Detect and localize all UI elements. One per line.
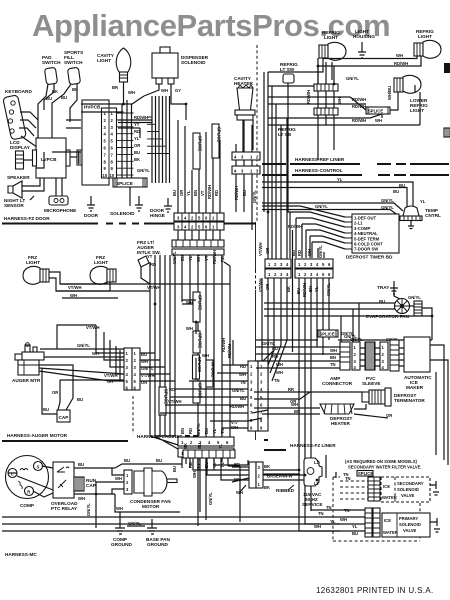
wire amp connector runs — [256, 303, 399, 368]
cavity light — [97, 48, 131, 104]
svg-text:TN: TN — [330, 362, 336, 367]
svg-text:LIGHT: LIGHT — [97, 58, 111, 63]
primary valve connectors — [2, 508, 380, 537]
splice S1 — [113, 168, 150, 206]
connector amp — [322, 342, 360, 386]
svg-text:CAP: CAP — [86, 483, 96, 488]
svg-text:RD/WH: RD/WH — [134, 115, 148, 120]
pad switch SW1 — [42, 55, 61, 85]
svg-text:VALVE: VALVE — [401, 493, 415, 498]
svg-text:BU: BU — [352, 531, 358, 536]
run cap — [74, 477, 97, 491]
refrig light upper A — [319, 30, 346, 60]
harness-ref liner divider — [262, 157, 449, 164]
svg-text:TN: TN — [318, 511, 324, 516]
svg-text:RD/WH: RD/WH — [352, 118, 366, 123]
svg-text:WH/BU: WH/BU — [387, 86, 392, 100]
svg-text:HVPCB: HVPCB — [84, 105, 101, 110]
svg-text:GN/YL: GN/YL — [381, 205, 394, 210]
svg-text:HARNESS-FZ DOOR: HARNESS-FZ DOOR — [4, 216, 50, 221]
svg-text:BU: BU — [43, 407, 49, 412]
svg-text:TRAY: TRAY — [377, 285, 390, 290]
svg-text:RD: RD — [134, 129, 140, 134]
evaporator fan — [366, 288, 422, 319]
svg-text:SPLICE: SPLICE — [197, 333, 202, 348]
svg-text:SLEEVE: SLEEVE — [362, 381, 381, 386]
svg-text:WH: WH — [276, 370, 283, 375]
svg-text:WH: WH — [396, 53, 403, 58]
svg-text:BASEPAN-W: BASEPAN-W — [267, 474, 293, 479]
svg-text:LIGHT: LIGHT — [418, 34, 432, 39]
capacitor CAP — [57, 410, 70, 422]
ground solenoid — [110, 196, 143, 216]
wire keyboard to LVPCB — [19, 112, 44, 152]
svg-text:SPLICE: SPLICE — [116, 181, 133, 186]
wire comp to relay — [8, 466, 53, 497]
svg-text:WH: WH — [314, 524, 321, 529]
svg-text:WH: WH — [70, 293, 77, 298]
splice S2 vertical — [193, 133, 202, 169]
auger motor — [12, 325, 124, 383]
wire pad switch leads — [38, 84, 58, 152]
svg-text:S: S — [37, 465, 40, 470]
svg-text:DISPLAY: DISPLAY — [10, 145, 31, 150]
night light sensor label — [4, 196, 34, 208]
svg-text:MICROPHONE: MICROPHONE — [44, 208, 76, 213]
wire color labels door hinge — [172, 185, 219, 199]
svg-text:7-DOOR SW: 7-DOOR SW — [354, 247, 378, 252]
wire evap fan runs — [256, 303, 432, 340]
svg-text:MAKER: MAKER — [406, 385, 424, 390]
svg-text:GN/YL: GN/YL — [252, 190, 257, 203]
svg-text:BU: BU — [61, 95, 67, 100]
svg-text:WH: WH — [115, 476, 122, 481]
svg-text:GN/YL: GN/YL — [315, 204, 328, 209]
svg-text:VT/WH: VT/WH — [68, 285, 82, 290]
ground base pan — [127, 519, 170, 547]
svg-text:RD/WH: RD/WH — [221, 338, 226, 352]
svg-text:WH: WH — [307, 249, 312, 256]
svg-text:WATER: WATER — [382, 495, 397, 500]
svg-text:SWITCH: SWITCH — [42, 60, 61, 65]
svg-text:BN: BN — [330, 355, 336, 360]
svg-text:SPLICE: SPLICE — [197, 383, 202, 398]
ground door — [84, 196, 99, 218]
svg-text:R: R — [27, 490, 30, 495]
wire bundle to door hinge — [178, 120, 220, 213]
svg-text:BU: BU — [46, 96, 52, 101]
wire center drop bundle — [150, 230, 230, 437]
splice S6e vertical — [159, 387, 182, 415]
svg-text:WH: WH — [78, 496, 85, 501]
splice S6b vertical — [193, 355, 202, 379]
svg-text:SECONDARY WATER FILTER VALVE: SECONDARY WATER FILTER VALVE — [348, 465, 421, 470]
svg-text:YL: YL — [218, 443, 223, 449]
wire relay outputs — [74, 462, 115, 501]
wire bundle into bottom connector — [150, 436, 222, 526]
power board HVPCB — [82, 100, 117, 185]
wire horizontal runs door — [36, 120, 152, 168]
svg-text:BU: BU — [77, 397, 83, 402]
svg-text:YL: YL — [352, 524, 358, 529]
svg-text:CONNECTOR: CONNECTOR — [322, 381, 353, 386]
connector stub right edge — [444, 63, 450, 137]
svg-text:GN/YL: GN/YL — [77, 343, 90, 348]
connector fz liner 9pin — [248, 361, 268, 431]
wire right bus to valves — [430, 345, 448, 465]
wire stubs labels to bus — [147, 117, 170, 154]
svg-text:12632801 PRINTED IN U.S.A.: 12632801 PRINTED IN U.S.A. — [316, 586, 434, 595]
svg-text:HARNESS-AUGER MOTOR: HARNESS-AUGER MOTOR — [7, 433, 68, 438]
svg-text:YL: YL — [212, 428, 217, 434]
svg-text:WATER: WATER — [383, 530, 398, 535]
splice S5 vertical — [186, 292, 202, 322]
service plug — [276, 458, 323, 507]
primary solenoid valve — [382, 513, 440, 537]
svg-text:WH: WH — [337, 97, 342, 104]
wire labels below control conn — [234, 120, 257, 230]
svg-text:BN: BN — [193, 190, 198, 196]
svg-text:C: C — [11, 472, 14, 477]
svg-text:COMP: COMP — [20, 503, 34, 508]
cavity heater — [234, 76, 255, 160]
svg-text:LIGHT: LIGHT — [94, 260, 108, 265]
svg-text:PRIMARY: PRIMARY — [399, 516, 418, 521]
svg-text:GN/YL: GN/YL — [86, 503, 91, 516]
svg-text:(AS REQUIRED ON SOME MODELS): (AS REQUIRED ON SOME MODELS) — [345, 459, 417, 464]
svg-text:GY: GY — [175, 88, 181, 93]
svg-text:OR: OR — [52, 390, 58, 395]
defrost heater — [254, 402, 392, 426]
svg-text:VT/WH: VT/WH — [86, 325, 100, 330]
plate number text — [316, 586, 434, 595]
svg-text:LIGHT: LIGHT — [410, 108, 424, 113]
harness auger motor divider — [2, 433, 128, 441]
svg-text:RR: RR — [288, 387, 294, 392]
svg-text:BU: BU — [134, 150, 140, 155]
svg-text:LT SB: LT SB — [278, 132, 292, 137]
harness fz liner divider — [264, 440, 336, 450]
op board LVPCB — [33, 138, 71, 178]
wire labels below cabinet connector — [188, 457, 225, 470]
svg-text:TN: TN — [274, 378, 280, 383]
svg-text:SOLENOID: SOLENOID — [399, 522, 421, 527]
sports fill switch SW2 — [64, 50, 83, 85]
svg-text:L2: L2 — [314, 481, 320, 486]
svg-text:GN/YL: GN/YL — [381, 198, 394, 203]
svg-text:WH: WH — [202, 353, 209, 358]
svg-text:WH: WH — [276, 362, 283, 367]
svg-text:RD/WH: RD/WH — [352, 97, 366, 102]
svg-text:WH: WH — [192, 471, 197, 478]
svg-text:SOLENOID: SOLENOID — [110, 211, 135, 216]
divider cabinet/fz-liner — [255, 222, 257, 440]
svg-text:RIBBED: RIBBED — [276, 488, 295, 493]
svg-text:GROUND: GROUND — [111, 542, 132, 547]
wire cavity drop bundle — [122, 100, 132, 178]
svg-text:BK: BK — [134, 157, 140, 162]
svg-text:RD: RD — [188, 428, 193, 434]
connector ref liner — [232, 152, 260, 160]
automatic ice maker — [375, 337, 432, 390]
wire drops below control connectors — [262, 230, 329, 511]
ground tray — [377, 281, 398, 294]
svg-text:SWITCH: SWITCH — [64, 60, 83, 65]
svg-text:YL: YL — [134, 136, 140, 141]
svg-text:BK: BK — [183, 443, 188, 449]
svg-text:VT: VT — [200, 190, 205, 196]
svg-text:YL: YL — [420, 199, 426, 204]
svg-text:GN/YL: GN/YL — [208, 492, 213, 505]
svg-text:VT/WH: VT/WH — [147, 285, 161, 290]
svg-text:GN/YL: GN/YL — [137, 168, 150, 173]
svg-text:SPLICE: SPLICE — [197, 357, 202, 372]
svg-text:GN/YL: GN/YL — [350, 337, 363, 342]
wire timer drop bundle — [290, 212, 324, 258]
svg-text:YL: YL — [186, 190, 191, 196]
divider dashed fz door / ref — [256, 45, 258, 222]
svg-text:RD: RD — [214, 190, 219, 196]
svg-text:GROUND: GROUND — [147, 542, 168, 547]
svg-text:GN/YL: GN/YL — [318, 245, 323, 258]
svg-text:WH: WH — [186, 326, 193, 331]
svg-text:HARNESS-MC: HARNESS-MC — [5, 552, 37, 557]
connector cabinet bottom rows — [178, 437, 234, 457]
svg-text:BU: BU — [156, 458, 162, 463]
svg-text:CAP: CAP — [59, 415, 69, 420]
svg-text:BK: BK — [264, 464, 270, 469]
svg-text:CNTRL: CNTRL — [425, 213, 441, 218]
svg-text:HARNESS-CONTROL: HARNESS-CONTROL — [295, 168, 343, 173]
svg-text:BN: BN — [180, 428, 185, 434]
svg-text:WH: WH — [236, 490, 243, 495]
connector control row 6pin — [258, 243, 333, 298]
wire harness bus vertical — [152, 96, 170, 183]
svg-text:TN: TN — [326, 505, 332, 510]
svg-text:SPLICE: SPLICE — [368, 109, 383, 114]
svg-text:BU: BU — [172, 466, 177, 472]
svg-text:OR: OR — [134, 143, 140, 148]
svg-text:ICE: ICE — [384, 518, 391, 523]
wire splice links — [182, 284, 230, 380]
connector mc top row — [183, 443, 235, 458]
svg-text:WH: WH — [116, 506, 123, 511]
wire refrig light feeds — [268, 53, 421, 84]
speaker — [7, 175, 44, 198]
svg-text:DEFROST TIMER BD: DEFROST TIMER BD — [346, 255, 393, 260]
svg-text:LIGHT: LIGHT — [324, 35, 338, 40]
wire labels above cabinet connector — [180, 423, 225, 436]
svg-text:WH: WH — [291, 402, 298, 407]
wire long bottom runs — [2, 511, 340, 531]
wire control loop top — [262, 177, 426, 216]
splice S6d vertical — [193, 338, 226, 403]
svg-text:YL: YL — [337, 177, 343, 182]
harness mc label — [5, 552, 37, 557]
secondary water filter valve note — [345, 459, 421, 470]
svg-text:BU: BU — [291, 250, 296, 256]
svg-text:WH: WH — [128, 90, 135, 95]
svg-text:GN/YL: GN/YL — [341, 331, 354, 336]
svg-text:BR: BR — [112, 85, 118, 90]
svg-text:RD: RD — [297, 250, 302, 256]
wire auger leads — [39, 351, 124, 414]
splice S4 — [366, 107, 390, 114]
svg-text:BU: BU — [393, 189, 399, 194]
svg-text:HARNESS-REF LINER: HARNESS-REF LINER — [295, 157, 345, 162]
svg-text:BU: BU — [172, 190, 177, 196]
svg-text:RD: RD — [272, 354, 278, 359]
ground comp — [111, 512, 132, 547]
svg-text:HEATER: HEATER — [331, 421, 351, 426]
svg-text:OR: OR — [386, 413, 392, 418]
wire HVPCB pin stubs — [117, 113, 134, 175]
svg-text:KEYBOARD: KEYBOARD — [5, 89, 32, 94]
svg-text:VT/WH: VT/WH — [258, 243, 263, 257]
frz light 2 — [90, 255, 116, 284]
ground door hinge — [150, 198, 172, 218]
svg-text:BK: BK — [52, 89, 58, 94]
wire lower light runs — [268, 76, 420, 125]
secondary valve connector — [340, 476, 380, 501]
svg-text:RD/WH: RD/WH — [207, 185, 212, 199]
connector control pair small — [265, 259, 291, 278]
svg-text:WH: WH — [375, 118, 382, 123]
svg-text:PTC RELAY: PTC RELAY — [51, 506, 78, 511]
dispenser solenoid — [128, 47, 209, 96]
svg-text:SOLENOID: SOLENOID — [181, 60, 206, 65]
keyboard connector — [3, 89, 33, 140]
wire dispenser runs — [81, 96, 186, 120]
svg-text:WH: WH — [161, 88, 168, 93]
connector door hinge block — [174, 213, 224, 230]
lower refrig light — [387, 75, 428, 113]
svg-text:HARNESS-FZ LINER: HARNESS-FZ LINER — [290, 443, 336, 448]
wire gnyl drop left — [86, 482, 108, 528]
svg-text:GN/YL: GN/YL — [346, 76, 359, 81]
svg-text:RD: RD — [234, 462, 240, 467]
dashed optional route — [333, 477, 420, 541]
wire color labels HVPCB — [134, 115, 148, 162]
temp control — [400, 206, 441, 229]
svg-text:BN: BN — [294, 409, 300, 414]
splice S3 vertical — [212, 124, 221, 158]
svg-text:YL: YL — [330, 519, 336, 524]
svg-text:BK: BK — [264, 485, 270, 490]
svg-text:HOUSING: HOUSING — [353, 34, 375, 39]
svg-text:DOOR: DOOR — [84, 213, 99, 218]
svg-text:BU: BU — [204, 428, 209, 434]
watermark AppliancePartsPros.com — [32, 8, 390, 43]
svg-text:GN/YL: GN/YL — [262, 341, 275, 346]
svg-text:SPLICE: SPLICE — [197, 136, 202, 151]
svg-text:GN/YL: GN/YL — [408, 295, 421, 300]
svg-text:SPLICE: SPLICE — [210, 362, 215, 377]
svg-text:AUGER MTR: AUGER MTR — [12, 378, 41, 383]
splice S7 — [318, 330, 354, 337]
svg-text:LIGHT: LIGHT — [26, 260, 40, 265]
wire left bundle ref section — [264, 72, 287, 259]
wire refrig vertical bundle — [318, 58, 334, 160]
svg-text:RD/WH: RD/WH — [227, 344, 232, 358]
svg-text:SENSOR: SENSOR — [4, 203, 24, 208]
svg-text:MOTOR: MOTOR — [142, 504, 160, 509]
harness-fz door divider — [2, 216, 256, 224]
wire mc drops — [172, 458, 317, 522]
svg-text:HINGE: HINGE — [150, 213, 165, 218]
connector auger col — [124, 348, 155, 391]
svg-text:BU: BU — [399, 183, 405, 188]
secondary solenoid valve — [381, 477, 439, 502]
light housing ground — [353, 29, 375, 58]
LCD display — [10, 140, 36, 169]
splice S8 — [343, 471, 373, 478]
svg-text:LT SW: LT SW — [280, 67, 295, 72]
splice S6c vertical — [206, 360, 215, 387]
overload ptc relay — [51, 462, 78, 511]
svg-text:AUTOMATIC: AUTOMATIC — [404, 375, 432, 380]
svg-text:OR: OR — [179, 190, 184, 196]
wire auger conn runs — [39, 325, 175, 381]
wire sports switch leads — [52, 84, 78, 152]
wire LVPCB right to HVPCB connector — [70, 150, 82, 165]
svg-text:ICE: ICE — [383, 484, 390, 489]
svg-text:BU: BU — [124, 458, 130, 463]
wire labels 9pin left — [227, 344, 246, 430]
svg-text:WH: WH — [340, 517, 347, 522]
svg-text:OR: OR — [265, 248, 270, 254]
svg-text:L1: L1 — [314, 460, 320, 465]
svg-text:10: 10 — [110, 173, 115, 178]
svg-text:10: 10 — [103, 173, 108, 178]
svg-text:VALVE: VALVE — [403, 528, 417, 533]
refrig lt sw — [280, 62, 298, 212]
harness-control divider — [262, 168, 449, 175]
wire runs into 9pin — [160, 340, 287, 428]
svg-text:YT: YT — [147, 254, 153, 259]
svg-text:BU: BU — [197, 443, 202, 449]
compressor COMP — [6, 456, 49, 509]
svg-text:SECONDARY: SECONDARY — [397, 481, 424, 486]
wire feeds to valves — [299, 455, 340, 531]
connector refrig lt sb col — [278, 84, 342, 137]
svg-text:SPLICE: SPLICE — [358, 471, 373, 476]
condenser fan motor — [108, 458, 182, 512]
svg-text:BU: BU — [78, 462, 84, 467]
pvc sleeve — [360, 342, 381, 386]
svg-text:SPLICE: SPLICE — [320, 332, 335, 337]
harness cabinet divider — [133, 396, 198, 439]
connector control — [232, 166, 260, 174]
basepan wire label — [263, 474, 300, 479]
wire frz lights loop — [49, 272, 204, 298]
svg-text:SPLICE: SPLICE — [197, 295, 202, 310]
defrost terminator — [254, 387, 425, 406]
svg-text:RD: RD — [169, 387, 175, 392]
wire timer pin fan — [262, 204, 352, 249]
svg-text:SOLENOID: SOLENOID — [397, 487, 419, 492]
refrig light upper B — [414, 29, 441, 58]
power cord connector — [232, 462, 270, 495]
svg-text:GN/YL: GN/YL — [196, 423, 201, 436]
svg-text:BK: BK — [72, 87, 78, 92]
svg-text:VT/WH: VT/WH — [168, 399, 182, 404]
svg-text:RD/WH: RD/WH — [394, 61, 408, 66]
microphone — [44, 178, 76, 213]
svg-text:TN: TN — [220, 428, 225, 434]
splice S6 vertical — [186, 326, 209, 358]
svg-text:SPEAKER: SPEAKER — [7, 175, 30, 180]
